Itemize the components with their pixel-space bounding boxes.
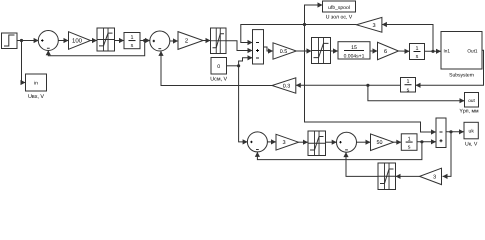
wire up to scope ufb_spool [305, 2, 323, 24]
svg-text:15: 15 [351, 45, 357, 51]
saturation SAT4 [308, 131, 326, 156]
wire K5 to sum S2 bottom [158, 51, 272, 86]
junction I2 output [431, 50, 434, 53]
svg-text:1: 1 [408, 136, 411, 142]
label Usm V [210, 76, 227, 82]
wire K4 to integrator I2 [399, 49, 410, 54]
svg-text:0: 0 [217, 64, 220, 70]
svg-text:Uвх, V: Uвх, V [28, 94, 44, 100]
label Uk V [465, 141, 478, 147]
wire constant down to sum S4 [239, 66, 248, 145]
wire branch to in block [21, 41, 26, 86]
wire constant to sum S3 lower minus [239, 55, 253, 66]
svg-text:s: s [408, 145, 411, 151]
label U zol os V [326, 14, 353, 20]
saturation SAT2 [211, 28, 227, 54]
svg-text:U зол ос, V: U зол ос, V [326, 14, 353, 20]
wire I3 to sum S7 plus [417, 139, 436, 144]
transfer function 15 over 0.004s+1 [338, 42, 370, 60]
label Subsystem [449, 72, 474, 78]
sum S3 three-input [253, 30, 264, 64]
gain K6 value 3 flipped [357, 17, 382, 32]
svg-text:Uк, V: Uк, V [465, 141, 478, 147]
wire K2 to saturation SAT2 [203, 38, 211, 43]
sum S4 [247, 132, 267, 152]
svg-text:1: 1 [407, 79, 410, 85]
junction S7 output [449, 130, 452, 133]
svg-text:0.5: 0.5 [280, 49, 288, 55]
wire K1 to saturation SAT1 [91, 38, 98, 43]
gain K4 value 6 [378, 42, 399, 59]
subsystem block [441, 32, 482, 70]
to-workspace block in [26, 74, 47, 91]
wire S2 to gain K2 [170, 38, 179, 43]
junction I3 output [420, 140, 423, 143]
integrator I3 [401, 134, 417, 151]
svg-text:ufb_spool: ufb_spool [328, 5, 350, 11]
wire S3 to gain K3 [264, 47, 274, 54]
sum S7 two-input [436, 118, 446, 148]
svg-text:s: s [131, 43, 134, 49]
junction constant output [237, 64, 240, 67]
saturation SAT3 [312, 38, 331, 64]
wire K9 to saturation SAT5 [396, 174, 420, 179]
gain K9 value 3 flipped [420, 168, 442, 184]
wire transfer fn to gain K4 [370, 48, 378, 53]
wire S4 to gain K7 [267, 139, 276, 144]
svg-text:Uсм, V: Uсм, V [210, 76, 227, 82]
svg-text:3: 3 [282, 140, 285, 146]
wire S1 to gain K1 [58, 38, 69, 43]
wire S5 to gain K8 [356, 140, 370, 145]
wire SAT4 to sum S5 [326, 140, 337, 145]
svg-text:Yрп, мм: Yрп, мм [459, 109, 479, 115]
feedback wire I3 to S4 bottom [255, 142, 422, 160]
wire K8 to integrator I3 [394, 140, 402, 145]
wire K7 to saturation SAT4 [299, 140, 309, 145]
svg-text:3: 3 [372, 23, 375, 29]
wire uk down to gain K9 [443, 132, 452, 179]
integrator I4 flipped [401, 78, 416, 94]
wire K6 left to sum S3 top minus [241, 25, 357, 46]
wire constant to junction [227, 65, 239, 67]
step source block [2, 33, 18, 49]
junction I1 output [143, 39, 146, 42]
junction position feedback [303, 23, 306, 26]
wire subsystem out to integrator I4 [416, 50, 484, 88]
junction I4 output [366, 84, 369, 87]
sum S2 [150, 31, 170, 51]
wire SAT2 to sum S3 plus input [226, 41, 253, 53]
junction step output [20, 39, 23, 42]
label Yrp mm [459, 109, 479, 115]
svg-text:Subsystem: Subsystem [449, 72, 474, 78]
saturation SAT1 [97, 28, 115, 51]
outport block out [465, 93, 479, 108]
integrator I1 [124, 33, 140, 50]
svg-text:0.004s+1: 0.004s+1 [344, 54, 365, 60]
wire K3 to saturation SAT3 [296, 48, 311, 53]
gain K2 value 2 [178, 32, 203, 50]
svg-text:in: in [34, 81, 38, 87]
saturation SAT5 flipped [378, 163, 396, 190]
svg-text:1: 1 [416, 46, 419, 52]
wire SAT3 to transfer fn [331, 48, 339, 53]
svg-text:0.3: 0.3 [283, 83, 291, 89]
integrator I2 [410, 44, 425, 61]
wire I4 output left [296, 83, 401, 88]
label Uvx V [28, 94, 44, 100]
feedback wire I1 to S1 [46, 41, 145, 56]
svg-text:In1: In1 [444, 49, 451, 54]
svg-text:50: 50 [377, 140, 383, 146]
wire to out block [368, 85, 465, 103]
to-workspace block ufb_spool [323, 1, 356, 12]
wire S7 to uk block [446, 129, 464, 134]
wire I2 to subsystem [425, 49, 442, 54]
svg-text:Out1: Out1 [467, 48, 478, 53]
svg-text:1: 1 [131, 35, 134, 41]
constant block 0 [211, 58, 227, 75]
gain K1 value 100 [69, 32, 91, 50]
sum S1 [38, 31, 58, 51]
to-workspace block uk [464, 122, 478, 139]
gain K8 value 50 [371, 134, 394, 151]
wire SAT5 to sum S5 bottom [343, 152, 378, 176]
svg-text:out: out [468, 98, 475, 103]
gain K5 value 0.3 flipped [272, 78, 296, 93]
wire position feedback down to sum S7 minus [305, 25, 437, 135]
svg-text:uk: uk [469, 129, 475, 135]
svg-text:100: 100 [72, 38, 83, 45]
sum S5 [337, 132, 357, 152]
svg-text:3: 3 [433, 174, 436, 180]
gain K7 value 3 [276, 134, 299, 150]
svg-text:s: s [416, 54, 419, 60]
svg-text:s: s [407, 87, 410, 93]
wire SAT1 to integrator I1 [115, 38, 125, 43]
wire I2 output up to gain K6 [382, 22, 433, 51]
wire I1 to sum S2 [140, 38, 150, 43]
wire step to sum S1 [17, 38, 39, 43]
svg-text:6: 6 [384, 49, 387, 55]
gain K3 value 0.5 [273, 43, 296, 59]
